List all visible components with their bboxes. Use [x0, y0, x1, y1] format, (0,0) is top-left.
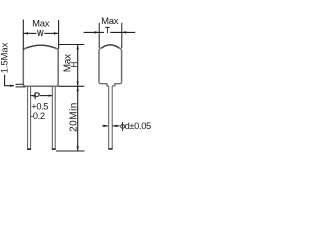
- svg-text:+0.5: +0.5: [31, 101, 48, 111]
- svg-text:Max: Max: [101, 16, 119, 27]
- svg-text:H: H: [70, 61, 79, 67]
- svg-text:T: T: [105, 26, 110, 35]
- svg-text:W: W: [37, 29, 44, 38]
- svg-text:P: P: [34, 91, 40, 102]
- svg-text:-0.2: -0.2: [30, 111, 45, 121]
- svg-text:20Min: 20Min: [68, 102, 79, 132]
- svg-text:Max: Max: [32, 18, 50, 29]
- svg-text:1.5Max: 1.5Max: [0, 42, 10, 73]
- svg-text:d±0.05: d±0.05: [125, 121, 151, 131]
